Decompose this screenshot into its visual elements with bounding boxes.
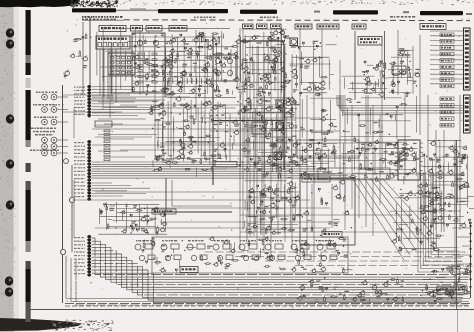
right edge stub wires [452,228,470,273]
ladder label box [95,121,112,127]
block label POWER [420,24,446,30]
component cluster: rec out buffer [100,203,166,235]
film sprocket mark 5 [6,200,14,209]
component cluster: control amp input pair [362,61,389,97]
wire mesh: power rail section [423,140,469,226]
L-route wire to tone board [166,178,232,212]
wire mesh: phones amp section [390,188,444,248]
node E1 [60,249,65,254]
outer loom wrap line 1 [66,256,470,299]
wire mesh: muting lower section [342,76,388,94]
top registration tick 3 [466,13,472,15]
long horizontal wires (center) [63,95,464,232]
component cluster: selector switching (IC2 periphery) [234,29,291,100]
relay RY2 box [453,286,467,294]
wire group bracket 1 [73,108,75,138]
CN2 pin labels [74,142,84,143]
component cluster: phones amp / protection (Q19-Q24) [391,183,443,258]
IC7 system control block [398,140,420,180]
bottom dense bus line 1 [65,303,470,305]
film sprocket mark 2 [6,39,14,48]
scan film edge strip [0,0,14,332]
block label SW2 [257,24,268,29]
wires into CN10 [430,30,463,32]
schematic inner border wire [71,165,73,252]
IC1 input selector block [96,36,130,49]
heavy signal trunk vertical (x284) [240,41,284,170]
top-left block border wire [82,22,84,95]
jack label tuner [36,92,58,94]
top dark scan band [0,0,80,7]
wire mesh: control amp right sparse [302,98,340,138]
input jack pair J4 (TO TAPE B) [42,137,48,143]
component cluster: flat amp upper parts [343,99,420,150]
top registration dash 2 [240,10,277,14]
control amp section border left [354,31,356,100]
top registration faint tail [116,10,162,12]
component cluster: tuner/tape input amp (Q1-Q4, R/C network) [132,32,239,98]
wire mesh: input section [97,28,240,94]
tone row labels [136,240,152,241]
power rail stub below page line [457,310,459,332]
equalizer block label [302,176,330,182]
block label PHONO EQ [169,26,187,32]
signal bus 2 from CN2 [92,183,151,196]
component cluster: power supply rail (D1-D8) [423,140,474,230]
top scan speckle [94,0,474,5]
input jack pair J1 (TO TUNER) [42,94,48,100]
small label note [390,16,415,18]
control amp section border right [384,31,386,100]
boxed transistor Q33 [274,152,282,160]
boxed transistor Q34 [290,38,298,46]
title text TUNER/TAPE schematic [82,16,123,18]
component cluster: flat amp (Q13-Q18) [343,139,425,184]
connector CN3 (to tone amp) [87,235,91,277]
component cluster: muting drive (Q9-Q12) [389,48,420,96]
input jack pair J3 (TO TAPE A) [42,119,48,125]
control amp block outline [297,140,359,158]
switch matrix S1 [108,53,135,75]
CN1 pin labels [74,87,85,88]
top registration dash 1 [158,9,228,13]
bottom page edge line [26,309,474,311]
component cluster: control amp lower parts [300,142,343,179]
top registration tick 2 [403,11,409,13]
CN10 signal label boxes [440,33,454,88]
upper-left vertical border wire [89,17,91,85]
wire mesh: flat amp upper sparse [341,96,417,139]
connector CN1 (input) [87,85,91,118]
block label TAPE [146,26,162,32]
block label SW1 [243,24,254,29]
jack label phono [30,150,59,152]
diagonal routing wires [352,178,434,260]
relay RY1 box [437,286,451,294]
wire bus from S1 [99,49,101,95]
tone control board outline [152,237,348,273]
volume control block [180,267,198,273]
block label FUNCTION [317,24,339,29]
wire mesh: tone amp section [245,181,299,234]
equalizer inner wires [311,184,313,230]
top registration dash 4 [420,11,463,15]
connector CN11 [464,95,471,133]
block label SELECTOR [295,24,312,29]
wire mesh: selector section [238,28,288,93]
board name label box [152,209,176,214]
component cluster: tone board pots and jumpers [142,236,352,273]
bottom dense bus line 2 [65,305,470,307]
component cluster: tone amplifier (IC5 periphery) [244,180,303,234]
wire mesh: muting right section [388,46,413,94]
schematic left border wire [62,85,64,303]
scan registration vertical bar [26,10,31,322]
flat amp block outline [318,168,390,179]
boxed transistor Q31 [276,100,284,108]
top registration tick 1 [314,11,320,13]
component cluster: equalizer block interior [302,179,352,242]
jack label tape a rec/play [34,117,58,119]
jack label cd [33,104,60,106]
top registration dash 3 [333,10,378,14]
wire group bracket 2 [73,180,75,238]
component cluster: tape EQ amp (IC3 periphery) [148,96,241,177]
bottom-left dark scan corner [0,318,82,331]
film sprocket mark 1 [6,28,14,37]
component cluster: relay contacts [420,264,472,304]
block label MUTING [352,24,366,29]
L-route wire 2 [172,180,232,206]
long vertical trunk wires (flat amp column) [345,95,380,236]
resistor ladder column [104,130,110,161]
wire mesh: control amp lower right [300,142,337,174]
long vertical trunk wires (selector column) [243,30,292,258]
CN11 signal label boxes [440,97,454,127]
film sprocket mark 7 [5,287,13,296]
right side bus risers [418,172,466,272]
muting transistor block Q5-Q8 [213,55,236,81]
jack label tape b lines [31,128,56,130]
resistor ladder row (input filter) [168,78,211,84]
block label RX tuner [99,26,126,32]
power supply regulator box [392,66,406,74]
input jack pair J2 (TO CD PLAYER) [42,107,48,113]
input buffer block outline [132,33,165,92]
connector CN10 (to power amp) [464,28,471,90]
film sprocket mark 3 [6,114,14,123]
component cluster: selector right parts [289,41,336,97]
title underline [82,19,124,21]
top registration dash 0 [72,8,116,12]
main wiring loom (bottom bus) [92,238,471,303]
equalizer block outline [300,178,355,245]
block label CONTROL AMP [358,37,382,46]
node E2 [69,197,74,202]
wire mesh: control amp section [242,96,298,175]
connector CN2 (tape monitor) [87,140,91,201]
block label SW3 [271,24,282,29]
film sprocket mark 6 [5,276,13,285]
boxed transistor Q32 [276,123,284,131]
signal bus from CN1 [92,87,161,116]
right edge rail junction dots [469,225,471,288]
loom return lines (right half) [205,252,468,266]
input jack pair J6 (TO GND) [42,150,48,156]
signal trunk bundle to power amp [337,95,468,113]
scan pepper noise [58,18,469,309]
long vertical wires (center) [103,28,460,303]
jack wires to connector [57,96,68,98]
block label IC1 [131,26,143,32]
film edge gradient fade [13,0,19,332]
wire mesh: flat amp section [341,142,417,178]
node E0 [64,159,69,164]
component cluster: antenna input labels [63,33,87,79]
tone control row components [135,244,337,261]
outer loom wrap line 2 [71,258,469,302]
component cluster: speaker relay drive [296,277,404,303]
wire mesh: tape EQ section [156,97,241,169]
heavy signal trunk vertical (x213) [212,35,214,185]
input jack pair J5 (TO PHONO) [42,144,48,150]
wire mesh: selector right section [289,41,331,93]
IC6 tone control block [252,122,266,134]
top registration faint streak [130,8,146,10]
top band speckled tail [70,0,118,8]
wire mesh: rec out section [98,202,167,234]
top border dashed wire [124,19,470,22]
film sprocket mark 4 [6,159,14,168]
small label lamp [194,17,216,19]
component cluster: control amp (IC4 periphery) [239,96,301,178]
heavy signal trunk horizontal (y120) [213,120,284,122]
component cluster: TP test points [301,109,337,142]
CN3 pin labels [74,237,84,238]
long horizontal wires band (mid-left) [92,97,283,157]
power rail vertical wire [456,140,458,309]
outer loom wrap line 3 [76,260,468,305]
right edge rail wire [470,222,472,298]
muting label box bottom [215,162,237,168]
small label voltage [260,17,278,19]
signal bus from CN2 [92,162,357,178]
equalizer inner label box [322,232,342,238]
